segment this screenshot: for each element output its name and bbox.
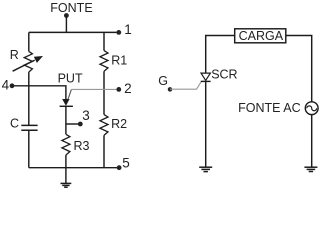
source FONTE AC [238,101,318,115]
svg-text:R: R [10,48,19,62]
node 3 [66,108,90,127]
svg-text:R1: R1 [111,54,127,68]
label FONTE [50,1,92,15]
svg-text:2: 2 [124,81,132,96]
wire SCR cathode down [205,81,207,166]
svg-text:R2: R2 [111,117,127,131]
svg-text:G: G [158,74,168,88]
svg-text:5: 5 [122,155,130,170]
wire G to SCR gate [170,82,201,90]
wire left branch top lead [28,32,30,51]
ground (left circuit) [61,183,72,187]
svg-text:FONTE: FONTE [50,1,92,15]
resistor R (variable) [10,48,43,72]
wire capacitor to bottom rail [28,131,30,168]
wire PUT gate to node 2 [71,88,118,90]
wire CARGA to AC source [286,36,312,102]
wire FONTE stub [65,16,67,33]
svg-text:PUT: PUT [58,72,83,86]
wire R2 bottom lead [103,135,105,167]
node 4 [2,77,15,92]
ground (AC source) [304,167,317,171]
svg-text:C: C [10,116,19,130]
load CARGA [235,29,286,43]
wire node 4 to PUT anode [12,86,66,100]
wire SCR anode from CARGA [206,36,235,74]
svg-text:SCR: SCR [211,68,237,82]
svg-text:3: 3 [82,108,90,123]
svg-text:FONTE AC: FONTE AC [238,101,301,115]
wire R1 top lead [103,32,105,50]
thyristor SCR [201,68,238,82]
node G terminal [158,74,172,92]
wire bottom rail [29,167,119,169]
wire R1 to R2 [103,71,105,114]
svg-text:4: 4 [2,77,10,92]
wire AC source to ground [311,115,313,167]
resistor R2 [100,115,127,136]
resistor R3 [62,134,90,155]
svg-text:1: 1 [124,22,132,37]
capacitor C [10,116,38,130]
wire PUT cathode down [65,106,67,134]
node 1 [116,22,131,37]
wire top rail [29,31,119,33]
wire R3 to ground [65,155,67,183]
node FONTE terminal dot [64,13,69,18]
node 2 [116,81,131,96]
svg-text:R3: R3 [74,139,90,153]
svg-text:CARGA: CARGA [239,29,284,43]
resistor R1 [100,51,127,72]
ground (SCR cathode) [199,167,212,171]
node 5 [117,155,130,170]
transistor PUT [58,72,83,107]
wire R bottom to capacitor [28,72,30,125]
